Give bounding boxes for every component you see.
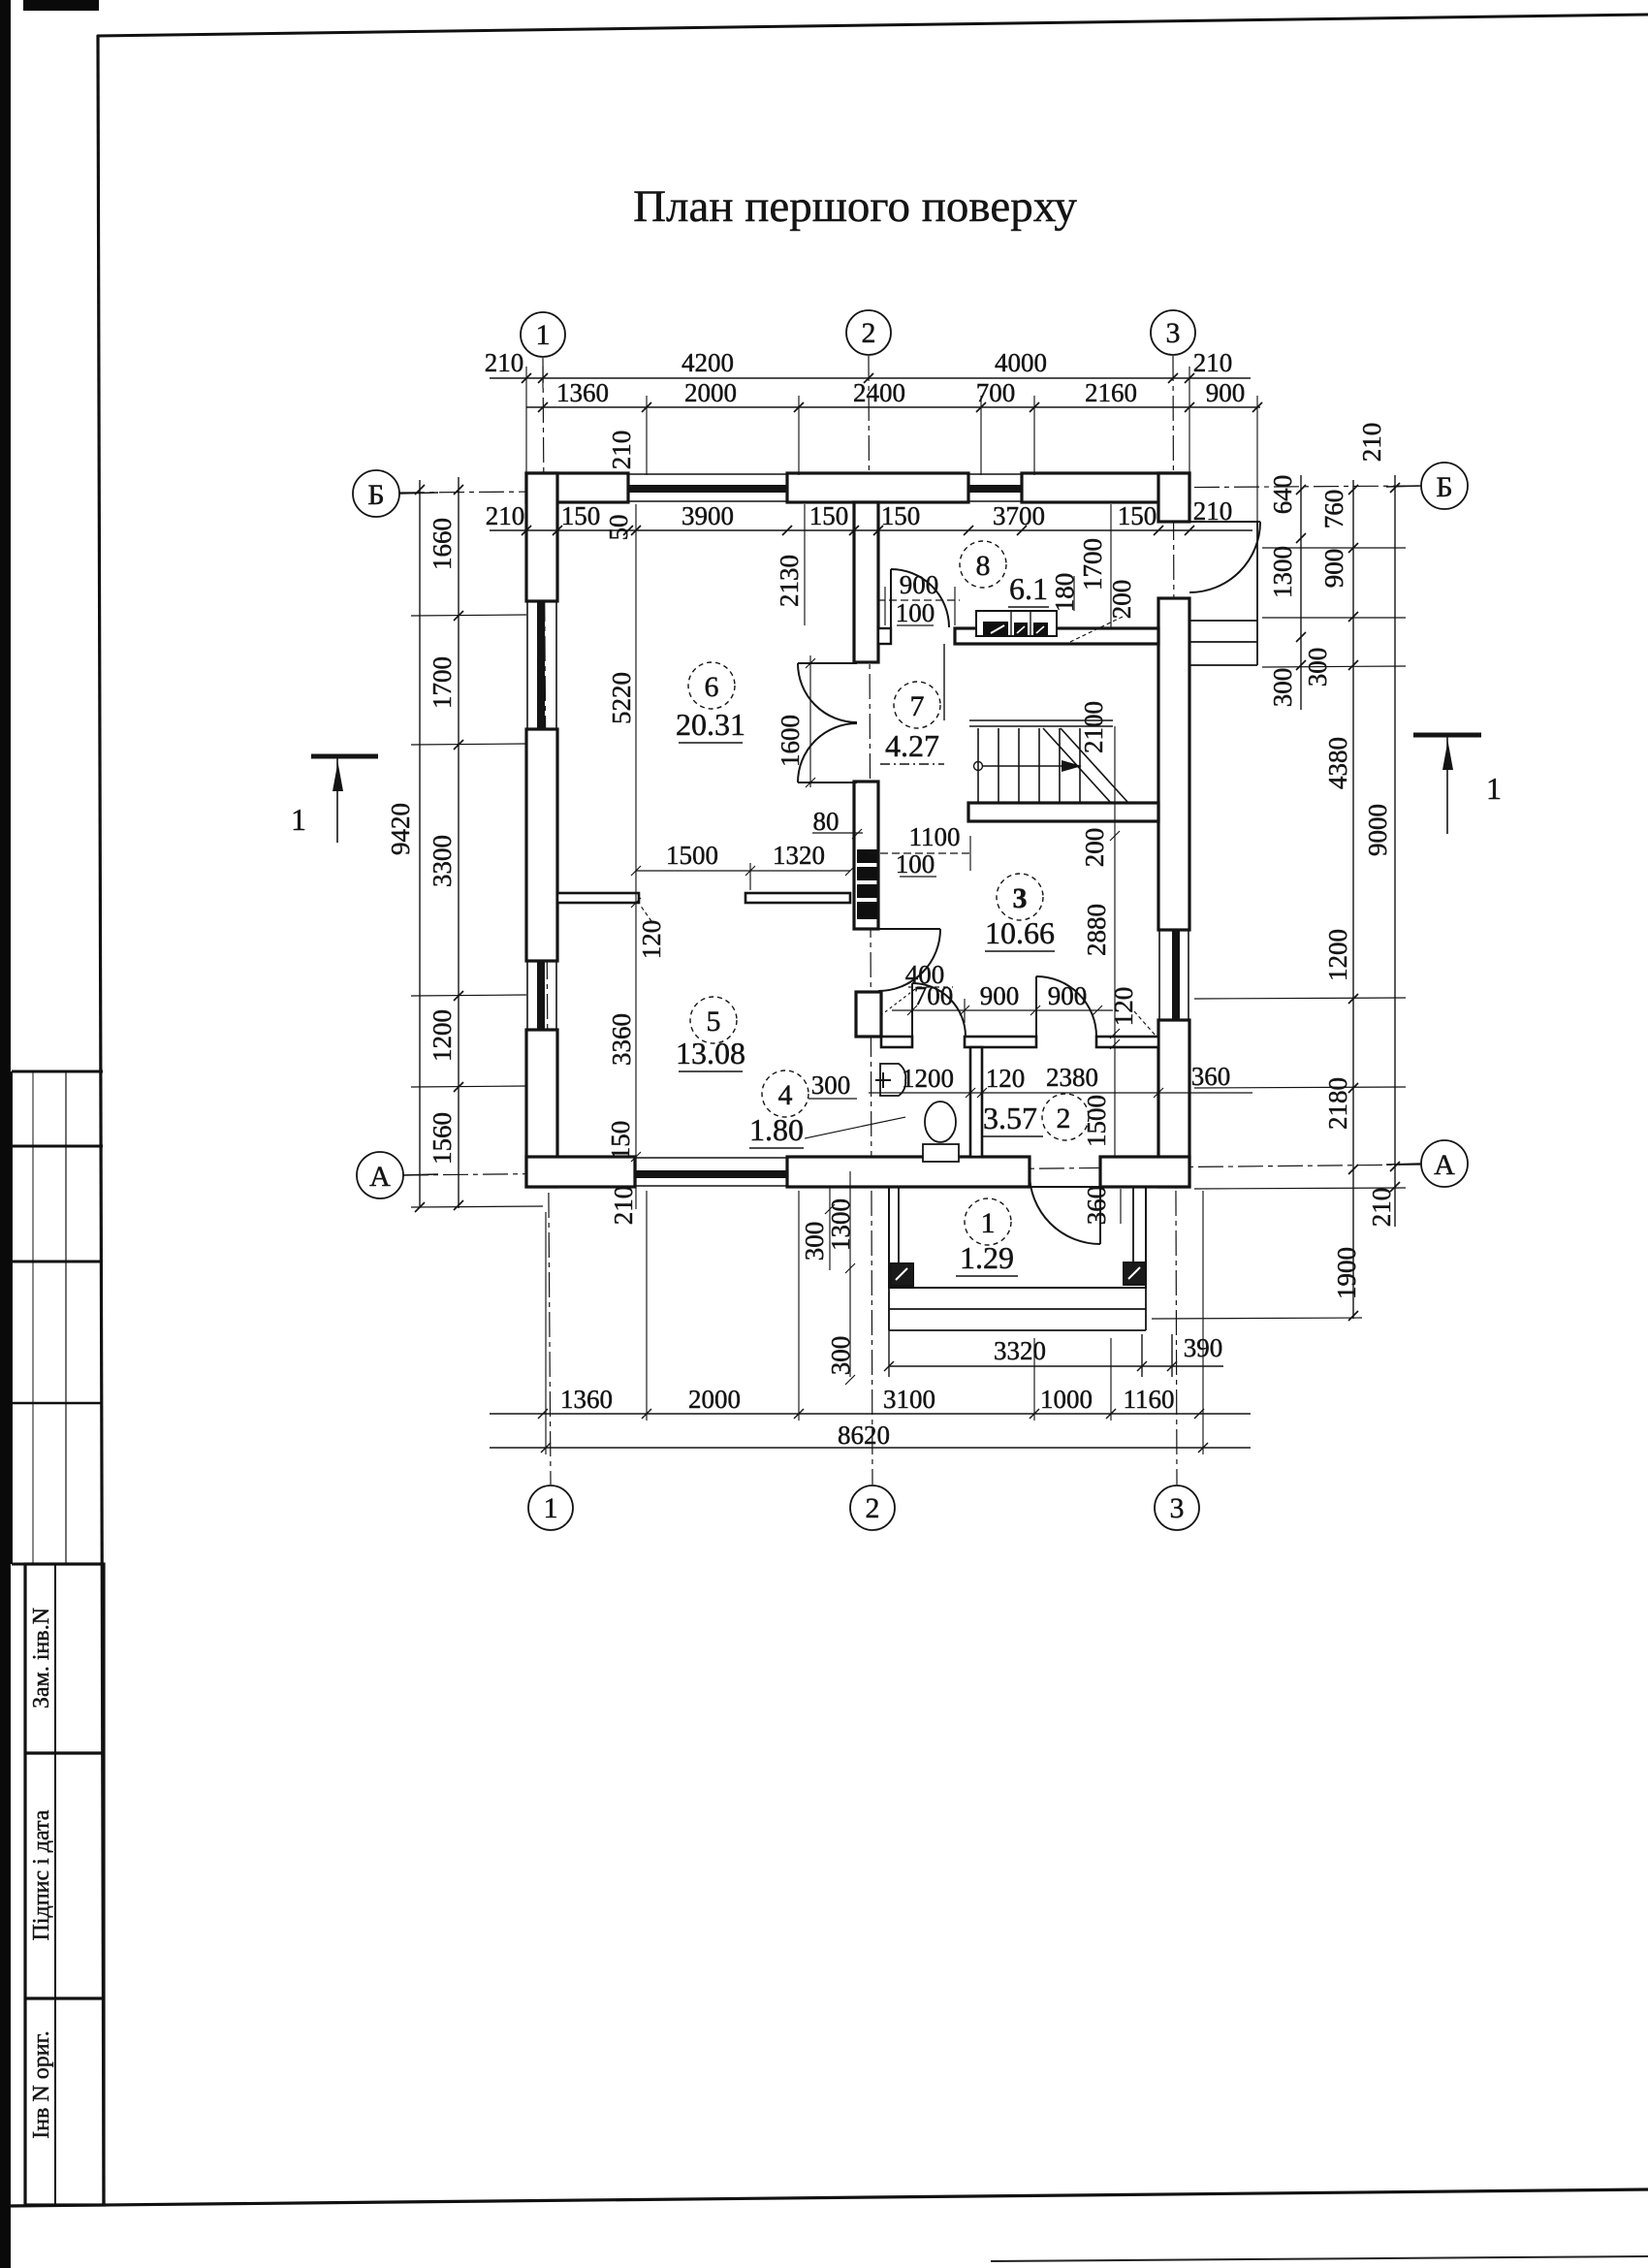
interior dim 1500 1320 xyxy=(631,863,855,890)
svg-text:210: 210 xyxy=(1357,423,1386,463)
svg-text:9000: 9000 xyxy=(1363,804,1392,856)
dim 1100/100 room5 door xyxy=(869,836,970,877)
partition wc/hall vertical xyxy=(970,1047,982,1157)
toilet xyxy=(923,1102,959,1162)
top chain ticks xyxy=(522,373,1262,535)
svg-text:1900: 1900 xyxy=(1332,1247,1361,1299)
bottom wall pier mid xyxy=(787,1157,1030,1187)
window right wall xyxy=(1158,930,1189,1020)
leader from 1.80 to washbasin xyxy=(805,1117,905,1138)
partition room6/room5 left segment xyxy=(557,893,850,903)
svg-text:210: 210 xyxy=(607,431,636,470)
svg-text:700: 700 xyxy=(976,378,1016,407)
svg-text:4.27: 4.27 xyxy=(885,728,939,763)
axis circle connector stubs xyxy=(399,486,1421,1175)
room 7 circle and area xyxy=(880,682,944,764)
svg-text:300: 300 xyxy=(1268,668,1297,708)
bottom extension lines xyxy=(546,1191,1203,1454)
wall dim row line xyxy=(490,529,1252,531)
window left wall upper xyxy=(526,601,557,729)
top chain labels row2 xyxy=(556,378,1245,407)
bottom wall pier right xyxy=(1100,1157,1189,1187)
svg-text:2: 2 xyxy=(866,1492,880,1524)
svg-text:План першого поверху: План першого поверху xyxy=(633,181,1077,232)
right wall pier bottom xyxy=(1158,1020,1189,1187)
porch post right xyxy=(1124,1262,1146,1285)
window top wall B xyxy=(968,473,1022,502)
svg-text:4380: 4380 xyxy=(1323,737,1352,789)
svg-text:2: 2 xyxy=(862,317,876,349)
leader for 200 label xyxy=(1070,617,1123,642)
svg-text:3320: 3320 xyxy=(994,1336,1046,1365)
svg-text:1660: 1660 xyxy=(428,518,457,570)
partition room6/room5 right segment xyxy=(745,893,850,903)
svg-text:3300: 3300 xyxy=(428,835,457,887)
svg-text:1560: 1560 xyxy=(428,1112,457,1165)
door right side exit leaf and arc xyxy=(1189,522,1260,592)
svg-text:8620: 8620 xyxy=(838,1421,890,1450)
svg-text:120: 120 xyxy=(1109,987,1138,1027)
svg-text:13.08: 13.08 xyxy=(676,1036,745,1070)
scan bottom-right edge line xyxy=(991,2256,1648,2261)
interior wall axis 2 bottom stub xyxy=(856,992,881,1037)
left chain extension lines xyxy=(411,615,543,1207)
svg-text:50: 50 xyxy=(604,515,633,541)
right wall pier top xyxy=(1158,473,1189,522)
svg-text:150: 150 xyxy=(881,501,921,530)
svg-text:760: 760 xyxy=(1319,490,1348,529)
axis 3 line xyxy=(1173,356,1177,1485)
svg-text:1: 1 xyxy=(536,319,551,351)
door room5 to corridor leaf and arc xyxy=(878,929,940,991)
frame top border xyxy=(97,15,1648,36)
partition segment c right xyxy=(1096,1037,1158,1047)
svg-text:6: 6 xyxy=(705,671,719,703)
svg-text:2160: 2160 xyxy=(1085,378,1137,407)
svg-text:900: 900 xyxy=(1048,981,1088,1010)
svg-text:2380: 2380 xyxy=(1046,1063,1098,1092)
svg-text:300: 300 xyxy=(1303,648,1332,687)
axis grid dash-dot lines xyxy=(399,356,1421,1485)
bottom overall dim line 8620 xyxy=(490,1443,1251,1453)
axis circle 1 top xyxy=(353,310,1468,1530)
wall dim row labels xyxy=(486,496,1233,541)
svg-text:1200: 1200 xyxy=(428,1009,457,1062)
svg-text:360: 360 xyxy=(1082,1186,1111,1226)
svg-text:120: 120 xyxy=(986,1064,1026,1093)
room 6 circle and area xyxy=(676,662,745,743)
svg-text:200: 200 xyxy=(1107,580,1136,620)
svg-text:9420: 9420 xyxy=(386,803,415,855)
svg-text:150: 150 xyxy=(561,501,601,530)
scan top-left black mark xyxy=(23,0,99,11)
axis Б line xyxy=(399,486,1421,493)
left chain labels xyxy=(386,518,457,1165)
svg-text:210: 210 xyxy=(485,348,524,377)
section mark right xyxy=(1413,735,1502,834)
svg-text:700: 700 xyxy=(914,981,954,1010)
svg-text:1600: 1600 xyxy=(776,715,805,767)
left chain ticks xyxy=(415,485,463,1212)
svg-text:900: 900 xyxy=(900,570,939,599)
svg-text:3: 3 xyxy=(1166,317,1181,349)
room 2 circle and area xyxy=(983,1094,1089,1140)
svg-text:3: 3 xyxy=(1013,882,1028,914)
svg-text:1300: 1300 xyxy=(1268,546,1297,598)
svg-text:1100: 1100 xyxy=(909,822,961,851)
frame left border xyxy=(98,35,104,2205)
wc dim row 1200 120 2380 360 xyxy=(869,1088,1252,1098)
room 1 circle and area xyxy=(956,1198,1018,1276)
interior right vertical chain 200 2880 1500 2100 1700 xyxy=(1110,504,1120,1157)
svg-text:1360: 1360 xyxy=(560,1385,613,1414)
svg-text:1000: 1000 xyxy=(1040,1385,1093,1414)
right chain ticks xyxy=(1296,483,1400,1321)
svg-text:1320: 1320 xyxy=(773,841,825,870)
dim 80 xyxy=(812,829,863,839)
room 8 circle and area xyxy=(960,541,1049,607)
svg-text:20.31: 20.31 xyxy=(676,707,745,742)
porch post left xyxy=(891,1263,913,1286)
axis А line xyxy=(403,1165,1421,1175)
top chain extension lines xyxy=(526,367,1257,521)
axis 2 line xyxy=(869,356,872,1485)
door wc leaf and arc xyxy=(912,983,966,1037)
svg-text:1200: 1200 xyxy=(902,1064,954,1093)
top wall pier right xyxy=(1022,473,1189,502)
svg-text:2880: 2880 xyxy=(1082,904,1111,956)
bottom dimension chain line 1 xyxy=(490,1409,1251,1419)
svg-text:4000: 4000 xyxy=(995,348,1047,377)
left wall pier mid xyxy=(526,729,557,961)
label 120 partition with leader xyxy=(640,905,651,921)
svg-text:1700: 1700 xyxy=(428,656,457,709)
svg-text:1500: 1500 xyxy=(666,841,718,870)
svg-text:Зам. iнв.N: Зам. iнв.N xyxy=(29,1608,54,1709)
exterior wall top: pier left xyxy=(526,473,1189,1187)
svg-text:210: 210 xyxy=(1193,348,1233,377)
right side porch slab and steps xyxy=(1189,522,1257,665)
svg-text:Пiдпис i дата: Пiдпис i дата xyxy=(29,1809,54,1940)
svg-text:3: 3 xyxy=(1170,1492,1185,1524)
svg-text:900: 900 xyxy=(1319,549,1348,589)
stair risers xyxy=(978,728,1080,803)
frame bottom border xyxy=(10,2189,1648,2206)
svg-text:2400: 2400 xyxy=(853,378,905,407)
svg-text:900: 900 xyxy=(1206,378,1246,407)
kitchen counter with appliances xyxy=(976,611,1057,636)
stamp labeled box xyxy=(25,1564,104,2205)
bottom chain labels row1 xyxy=(560,1385,1175,1414)
room 4 circle and area xyxy=(749,1070,857,1148)
window bottom wall xyxy=(635,1157,787,1187)
svg-text:5: 5 xyxy=(707,1006,721,1038)
svg-text:1: 1 xyxy=(544,1492,558,1524)
svg-text:Б: Б xyxy=(1436,471,1452,503)
right wall pier mid xyxy=(1158,598,1189,930)
svg-text:120: 120 xyxy=(637,920,666,960)
svg-text:1500: 1500 xyxy=(1082,1095,1111,1147)
interior wall on axis 2 upper xyxy=(854,502,881,1037)
stair direction line with start circle and arrow xyxy=(974,762,1067,771)
svg-text:А: А xyxy=(1434,1149,1455,1181)
svg-text:1360: 1360 xyxy=(556,378,609,407)
svg-text:100: 100 xyxy=(896,849,935,878)
interior dim 2130 xyxy=(804,504,806,625)
svg-text:1160: 1160 xyxy=(1124,1385,1175,1414)
partition corridor/wc-hall segment a xyxy=(881,1037,1158,1157)
svg-text:8: 8 xyxy=(976,550,991,582)
scan edge black strip xyxy=(0,0,11,2268)
window left wall lower xyxy=(526,961,557,1030)
svg-text:2180: 2180 xyxy=(1323,1077,1352,1130)
svg-text:80: 80 xyxy=(813,807,840,836)
svg-text:300: 300 xyxy=(811,1070,851,1100)
short line for 180 xyxy=(1073,576,1075,611)
svg-text:210: 210 xyxy=(1193,496,1233,526)
svg-text:10.66: 10.66 xyxy=(985,915,1055,950)
stamp upper table xyxy=(12,1071,103,1564)
room 3 circle and area xyxy=(985,874,1055,951)
bottom wall pier left xyxy=(526,1157,635,1187)
stair bottom wall xyxy=(968,803,1158,821)
axis circle numbers xyxy=(367,317,1455,1524)
svg-text:1200: 1200 xyxy=(1323,929,1352,981)
front porch slab xyxy=(889,1187,1146,1330)
svg-text:2100: 2100 xyxy=(1079,701,1108,753)
top wall pier mid (axis2) xyxy=(787,473,968,502)
svg-text:1700: 1700 xyxy=(1078,538,1107,591)
svg-text:4: 4 xyxy=(778,1079,793,1111)
door double room6-room7 leaves xyxy=(798,663,857,783)
svg-text:4200: 4200 xyxy=(681,348,734,377)
stair break diagonals xyxy=(1043,728,1128,803)
svg-text:300: 300 xyxy=(800,1222,829,1262)
top dimension chain line 2 xyxy=(526,406,1260,408)
svg-text:7: 7 xyxy=(910,690,925,722)
right dim chain lines xyxy=(1301,475,1395,1319)
svg-text:210: 210 xyxy=(1367,1188,1396,1228)
axis 1 line xyxy=(543,358,551,1485)
svg-text:100: 100 xyxy=(896,598,935,627)
bottom porch dim line 3320/390 xyxy=(884,1292,1223,1377)
right chain labels xyxy=(1268,423,1396,1299)
svg-text:3360: 3360 xyxy=(607,1013,636,1066)
svg-text:Б: Б xyxy=(367,479,384,511)
svg-text:3100: 3100 xyxy=(883,1385,935,1414)
top dimension chain line 1 xyxy=(490,378,1260,530)
svg-text:2130: 2130 xyxy=(775,555,804,607)
partition segment b between doors xyxy=(965,1037,1036,1047)
small dim lines bottom center xyxy=(825,1171,1121,1385)
svg-text:150: 150 xyxy=(606,1121,635,1161)
svg-text:1: 1 xyxy=(291,802,306,837)
svg-text:210: 210 xyxy=(609,1186,638,1226)
interior dim 1600 door xyxy=(806,655,815,787)
door hall room2 leaf and arc xyxy=(1036,976,1096,1037)
stair landing edge xyxy=(944,644,1113,726)
svg-text:360: 360 xyxy=(1191,1062,1231,1091)
svg-text:1.80: 1.80 xyxy=(749,1112,804,1147)
svg-text:А: А xyxy=(369,1161,391,1193)
interior wall on axis 2 middle (vent block) xyxy=(854,782,878,929)
svg-text:5220: 5220 xyxy=(607,672,636,724)
svg-text:900: 900 xyxy=(980,981,1020,1010)
svg-text:3.57: 3.57 xyxy=(983,1101,1037,1135)
bottom rotated small dims 300 1300 300 360 xyxy=(800,1186,1111,1376)
dim 900/100 room8 door xyxy=(877,587,960,625)
room 5 circle and area xyxy=(676,997,745,1071)
svg-text:1: 1 xyxy=(1486,771,1502,806)
svg-text:200: 200 xyxy=(1080,828,1109,868)
svg-text:150: 150 xyxy=(809,501,849,530)
door room8 leaf and arc xyxy=(891,569,949,627)
right chain extension lines xyxy=(1152,548,1406,1319)
svg-text:2000: 2000 xyxy=(688,1385,741,1414)
left wall pier top xyxy=(526,473,557,601)
section mark left xyxy=(291,756,378,843)
door entry from porch leaf and arc xyxy=(1030,1173,1100,1244)
svg-text:6.1: 6.1 xyxy=(1009,571,1048,606)
window top wall A xyxy=(628,473,787,502)
svg-text:3900: 3900 xyxy=(681,501,734,530)
svg-text:640: 640 xyxy=(1268,475,1297,515)
corridor door dims 700 900 900 xyxy=(892,999,1113,1023)
svg-text:150: 150 xyxy=(1118,501,1157,530)
svg-text:1: 1 xyxy=(981,1207,996,1239)
svg-text:210: 210 xyxy=(486,501,525,530)
svg-text:1.29: 1.29 xyxy=(960,1240,1014,1275)
kitchen wall between room8 and stairs xyxy=(878,628,1158,644)
svg-text:Iнв N ориг.: Iнв N ориг. xyxy=(29,2030,54,2138)
washbasin xyxy=(875,1064,905,1096)
left dim chain lines xyxy=(420,477,459,1208)
svg-text:2000: 2000 xyxy=(684,378,737,407)
interior dim line room6 vertical 5220 xyxy=(631,504,641,1209)
left wall pier bottom xyxy=(526,1030,557,1187)
top chain labels row1 xyxy=(485,348,1233,377)
svg-text:2: 2 xyxy=(1057,1102,1071,1134)
svg-text:3700: 3700 xyxy=(993,501,1045,530)
label 120 right partition leader xyxy=(1134,1011,1156,1036)
vent block black squares xyxy=(857,849,877,919)
